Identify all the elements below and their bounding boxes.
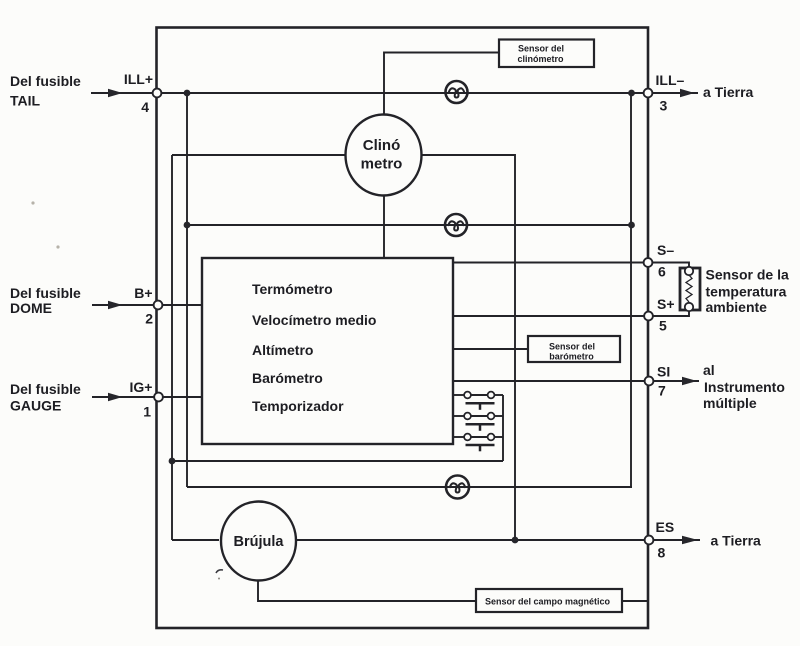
wire clinometro left — [172, 154, 346, 156]
junction dot second lamp line left — [184, 222, 191, 229]
junction dot second lamp line right — [628, 222, 635, 229]
lamp L3 on bottom line — [446, 476, 469, 499]
svg-text:4: 4 — [141, 99, 149, 115]
svg-text:Sensor del: Sensor del — [549, 342, 595, 352]
svg-text:Instrumento: Instrumento — [704, 379, 785, 395]
svg-text:ambiente: ambiente — [706, 299, 768, 315]
sensor del barometro label box — [528, 336, 620, 362]
svg-text:B+: B+ — [134, 285, 152, 301]
arrowhead DOME — [108, 301, 123, 309]
svg-text:Altímetro: Altímetro — [252, 342, 313, 358]
wire S+ terminal to temperature sensor resistor — [652, 311, 689, 316]
svg-text:Clinó: Clinó — [363, 137, 401, 154]
wire SI to pin7 — [453, 380, 649, 382]
svg-text:Temporizador: Temporizador — [252, 398, 344, 414]
svg-text:Del fusible: Del fusible — [10, 73, 81, 89]
wire to barometro sensor — [453, 348, 528, 350]
svg-text:GAUGE: GAUGE — [10, 398, 61, 414]
wire vertical from ILL+ junction down to bottom lamp line — [186, 93, 188, 487]
wire GAUGE input arrow line — [92, 396, 158, 398]
wire DOME input arrow line — [92, 304, 158, 306]
wire S- to module — [453, 262, 648, 264]
wire brujula left — [172, 539, 219, 541]
scan mark near brujula — [216, 570, 223, 573]
svg-text:Brújula: Brújula — [234, 534, 285, 550]
switch SW3 — [453, 434, 503, 452]
resistor: sensor de la temperatura ambiente — [680, 267, 700, 311]
wire clinometro top stem to sensor label — [384, 53, 499, 118]
svg-text:Velocímetro medio: Velocímetro medio — [252, 312, 376, 328]
wire ES line (brujula to pin8) — [297, 539, 649, 541]
wire brujula bottom to magnetic sensor line — [258, 579, 648, 601]
wire bottom lamp line — [187, 486, 632, 488]
sensor del clinometro label box — [499, 40, 594, 68]
wire vertical clino-left / brujula feed — [171, 155, 173, 540]
arrowhead ILL- out — [680, 89, 695, 97]
wire S- terminal to temperature sensor resistor — [652, 263, 689, 268]
junction dot ILL+ / vertical — [184, 90, 191, 97]
arrowhead SI out — [682, 377, 697, 385]
svg-text:barómetro: barómetro — [549, 352, 594, 362]
svg-text:6: 6 — [658, 264, 666, 280]
svg-text:metro: metro — [361, 156, 403, 173]
scan speck — [31, 201, 34, 204]
svg-text:DOME: DOME — [10, 300, 52, 316]
svg-text:Del fusible: Del fusible — [10, 285, 81, 301]
lamp L2 on second line — [445, 214, 467, 236]
arrowhead GAUGE — [108, 393, 123, 401]
junction dot y461 feed — [169, 458, 176, 465]
central module box — [202, 258, 453, 444]
terminal pin4 ILL+ — [153, 89, 162, 98]
svg-text:7: 7 — [658, 383, 666, 399]
wire second lamp line — [187, 224, 631, 226]
svg-text:al: al — [703, 362, 715, 378]
wire TAIL input arrow line — [91, 92, 157, 94]
terminal pin5 S+ — [644, 312, 653, 321]
scan speck — [56, 245, 59, 248]
arrowhead TAIL — [108, 89, 123, 97]
svg-text:Termómetro: Termómetro — [252, 281, 333, 297]
svg-text:ILL–: ILL– — [656, 72, 685, 88]
terminal pin6 S- — [644, 258, 653, 267]
svg-text:Sensor del: Sensor del — [518, 44, 564, 54]
svg-text:1: 1 — [143, 404, 151, 420]
svg-text:Sensor del campo magnético: Sensor del campo magnético — [485, 597, 611, 607]
wire S+ to module — [453, 315, 648, 317]
arrowhead ES out — [682, 536, 698, 544]
terminal pin3 ILL- — [644, 89, 653, 98]
svg-text:a Tierra: a Tierra — [703, 84, 754, 100]
wire ILL- output arrow — [648, 92, 698, 94]
wire clinometro right to long vertical — [422, 155, 515, 540]
svg-text:ILL+: ILL+ — [124, 71, 153, 87]
lamp L1 on ILL+ line — [446, 81, 468, 103]
svg-text:ES: ES — [656, 519, 675, 535]
svg-text:8: 8 — [658, 545, 666, 561]
terminal pin1 IG+ — [154, 393, 163, 402]
svg-text:múltiple: múltiple — [703, 395, 757, 411]
wire B+ to module — [158, 304, 202, 306]
svg-text:S+: S+ — [657, 296, 675, 312]
svg-text:Del fusible: Del fusible — [10, 381, 81, 397]
junction dot ILL- branch top — [628, 90, 635, 97]
svg-text:Sensor de la: Sensor de la — [706, 267, 789, 283]
terminal pin8 ES — [645, 536, 654, 545]
svg-text:5: 5 — [659, 318, 667, 334]
wire switch right vertical — [502, 395, 504, 461]
wire SI output arrow — [649, 380, 699, 382]
clinometro gauge circle — [346, 115, 422, 196]
wire lower feed line y461 — [172, 460, 503, 462]
svg-text:S–: S– — [657, 242, 674, 258]
svg-text:2: 2 — [145, 311, 153, 327]
sensor del campo magnetico label box — [476, 589, 622, 612]
svg-text:SI: SI — [657, 364, 670, 380]
switch SW2 — [453, 413, 503, 431]
svg-text:TAIL: TAIL — [10, 93, 41, 109]
svg-text:Barómetro: Barómetro — [252, 370, 323, 386]
terminal pin7 SI — [645, 377, 654, 386]
svg-text:clinómetro: clinómetro — [517, 54, 564, 64]
svg-text:3: 3 — [660, 98, 668, 114]
terminal pin2 B+ — [154, 301, 163, 310]
svg-text:a Tierra: a Tierra — [711, 533, 762, 549]
junction dot ES line — [512, 537, 519, 544]
wire clinometro bottom stem — [383, 194, 385, 258]
svg-text:temperatura: temperatura — [706, 284, 787, 300]
wire ILL+ bus (pin4 to pin3) — [157, 92, 648, 94]
brujula gauge circle — [221, 502, 296, 581]
wire vertical ILL- branch — [630, 93, 632, 487]
outer box (instrument cluster boundary) — [157, 28, 649, 629]
svg-text:IG+: IG+ — [130, 379, 153, 395]
wire IG+ to module — [158, 396, 202, 398]
switch SW1 — [453, 392, 503, 410]
wire ES output arrow — [649, 539, 700, 541]
